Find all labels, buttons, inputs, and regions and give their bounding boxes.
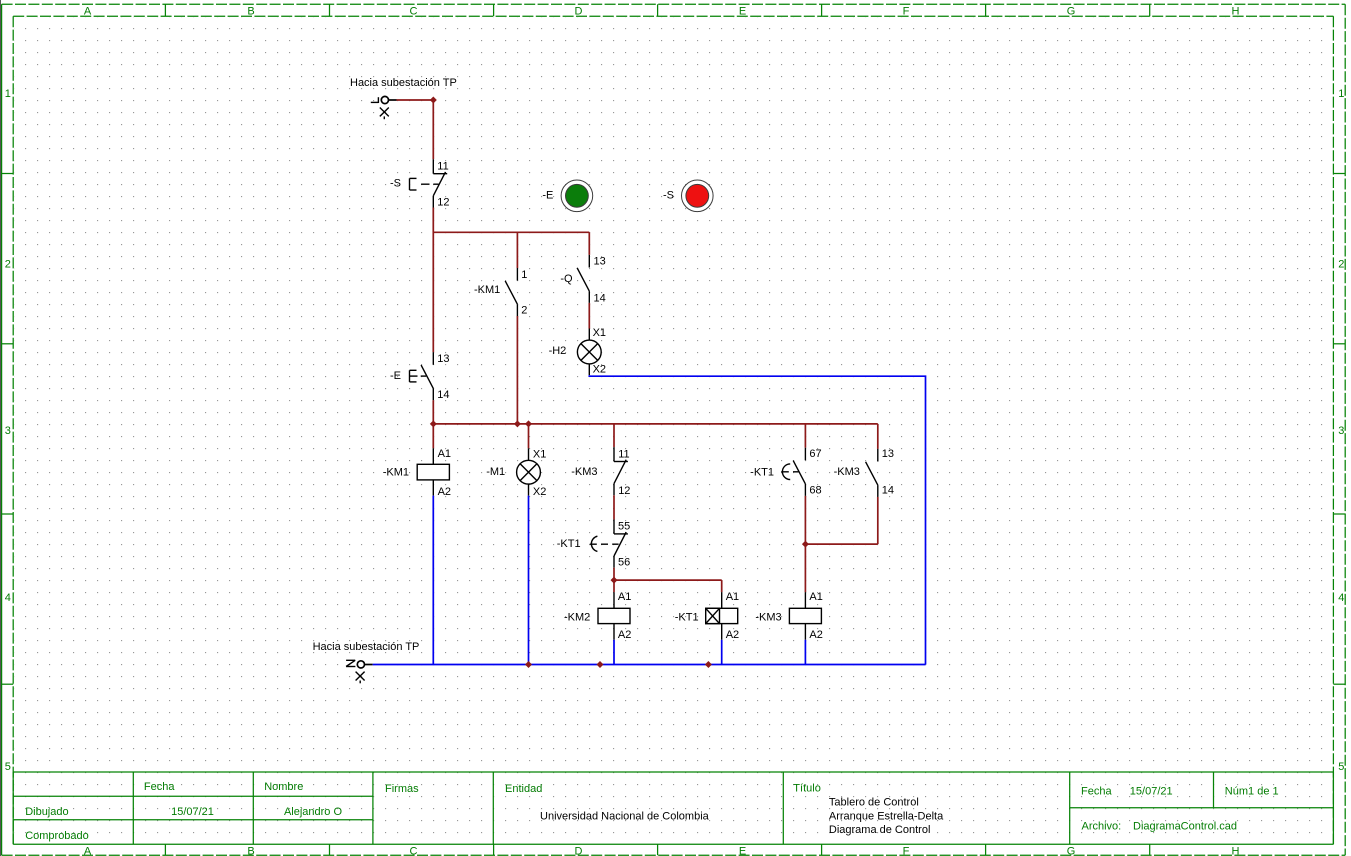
svg-text:-KM1: -KM1	[474, 284, 500, 296]
wire red KM3 NC to KT1 contact	[613, 495, 615, 519]
svg-text:68: 68	[809, 484, 821, 496]
svg-text:4: 4	[1338, 592, 1344, 604]
coil -KM3	[789, 592, 821, 640]
wire red bus corner to KM3 NO	[877, 424, 879, 449]
column letters bottom	[84, 845, 1240, 856]
left table row line 1	[13, 795, 373, 797]
svg-text:D: D	[575, 5, 583, 17]
svg-text:13: 13	[594, 255, 606, 267]
wire red Q branch upper	[588, 232, 590, 255]
svg-text:X2: X2	[533, 486, 546, 498]
wire red KM1-contact branch lower	[516, 316, 518, 424]
svg-text:A: A	[84, 845, 92, 856]
contact -KM1 (NO)	[505, 268, 517, 316]
inner dashed border top	[13, 15, 1333, 17]
svg-text:11: 11	[437, 160, 448, 172]
svg-text:-KM3: -KM3	[571, 466, 597, 478]
svg-text:H: H	[1232, 5, 1240, 17]
svg-text:Fecha: Fecha	[1081, 785, 1112, 797]
wire red below -E to bus	[432, 400, 434, 424]
wire red bus to KT1 contact 67	[804, 424, 806, 448]
inner dashed border left	[12, 16, 14, 844]
top band column ticks	[164, 4, 166, 16]
svg-text:Archivo:: Archivo:	[1082, 821, 1122, 833]
svg-text:1: 1	[521, 269, 527, 281]
right block middle horizontal	[1070, 807, 1334, 809]
svg-text:-KM3: -KM3	[834, 466, 860, 478]
svg-text:-KT1: -KT1	[675, 611, 699, 623]
svg-text:E: E	[739, 845, 746, 856]
row numbers left	[5, 88, 11, 773]
wire black terminal stub (bottom)	[365, 664, 373, 666]
svg-text:Título: Título	[793, 783, 821, 795]
svg-text:-KM1: -KM1	[383, 467, 409, 479]
junction bottom mid1	[597, 661, 604, 668]
svg-text:11: 11	[618, 448, 629, 460]
wire blue KM1 coil to bottom bus	[432, 496, 434, 665]
svg-text:15/07/21: 15/07/21	[1130, 785, 1173, 797]
svg-text:Firmas: Firmas	[385, 783, 419, 795]
contact -KM3 (NO, 13/14)	[866, 449, 878, 497]
contact -KT1 timed (67/68 NO)	[781, 448, 805, 496]
junction bus KM1-branch	[514, 420, 521, 427]
svg-text:Tablero de Control: Tablero de Control	[829, 796, 919, 808]
wire red top horizontal	[397, 99, 434, 101]
svg-text:Núm1 de 1: Núm1 de 1	[1225, 786, 1279, 798]
svg-text:A2: A2	[726, 629, 739, 641]
svg-text:Universidad Nacional de Colomb: Universidad Nacional de Colombia	[540, 810, 710, 822]
svg-text:Arranque Estrella-Delta: Arranque Estrella-Delta	[829, 810, 944, 822]
svg-text:Comprobado: Comprobado	[25, 830, 89, 842]
wire red horizontal KM3 loop	[805, 543, 877, 545]
svg-text:Hacia subestación TP: Hacia subestación TP	[350, 77, 457, 89]
wire red bus to KM1 coil	[432, 424, 434, 448]
wire blue KM2 to bottom bus	[613, 640, 615, 665]
svg-text:A1: A1	[726, 591, 739, 603]
svg-text:55: 55	[618, 520, 630, 532]
wire blue bottom bus	[373, 664, 926, 666]
svg-text:67: 67	[809, 448, 821, 460]
svg-text:-Q: -Q	[560, 273, 573, 285]
svg-text:3: 3	[1338, 425, 1344, 437]
left table row line 2	[13, 819, 373, 821]
svg-text:12: 12	[618, 485, 630, 497]
wire red KT1 67 to KM3 coil	[804, 496, 806, 592]
outer border left (solid)	[1, 4, 3, 855]
row numbers right	[1338, 88, 1344, 773]
wire red horizontal to KT1 coil	[614, 579, 722, 581]
svg-text:2: 2	[5, 259, 11, 271]
coil -KM1	[417, 448, 449, 495]
pushbutton -S (NC stop)	[410, 159, 448, 207]
outer border bottom (dashed)	[2, 854, 1346, 856]
wire red branch horizontal at 232	[433, 231, 589, 233]
wire red KM3 NO lower	[877, 497, 879, 544]
entidad column line	[492, 772, 494, 844]
firmas column line	[372, 772, 374, 844]
wire red between -Q and -H2	[588, 303, 590, 329]
svg-text:-E: -E	[390, 370, 401, 382]
svg-text:B: B	[247, 5, 254, 17]
coil -KT1 (timer)	[706, 592, 738, 640]
svg-text:C: C	[410, 845, 418, 856]
svg-text:56: 56	[618, 556, 630, 568]
svg-text:F: F	[903, 845, 910, 856]
wire black terminal stub (top)	[389, 99, 397, 101]
left band row ticks	[2, 173, 14, 175]
svg-text:-KT1: -KT1	[750, 467, 774, 479]
svg-text:C: C	[410, 5, 418, 17]
titulo column line	[782, 772, 784, 844]
svg-text:A1: A1	[618, 591, 631, 603]
svg-text:G: G	[1067, 845, 1076, 856]
svg-text:5: 5	[5, 761, 11, 773]
junction bottom M1	[525, 661, 532, 668]
svg-text:DiagramaControl.cad: DiagramaControl.cad	[1133, 821, 1237, 833]
wire red KT1 contact to KM2 coil	[613, 568, 615, 593]
svg-text:A: A	[84, 5, 92, 17]
pushbutton -E (NO start)	[410, 352, 434, 400]
svg-text:X2: X2	[593, 363, 606, 375]
svg-text:-KT1: -KT1	[557, 538, 581, 550]
column letters top	[84, 5, 1240, 17]
wire red KM1-contact branch upper	[516, 232, 518, 268]
svg-text:-E: -E	[542, 189, 553, 201]
junction bottom mid2	[705, 661, 712, 668]
svg-text:G: G	[1067, 5, 1076, 17]
wire red below -S down to -E contact	[432, 208, 434, 353]
svg-text:14: 14	[594, 293, 606, 305]
right block left edge	[1069, 772, 1071, 844]
svg-text:A1: A1	[809, 591, 822, 603]
wire blue KM3 coil to bottom bus	[804, 640, 806, 665]
svg-text:A2: A2	[809, 629, 822, 641]
node: terminal to substation (top)	[371, 96, 389, 119]
svg-text:A2: A2	[618, 629, 631, 641]
svg-text:-S: -S	[390, 177, 401, 189]
junction bus M1-branch	[525, 420, 532, 427]
right band row ticks	[1333, 173, 1345, 175]
svg-text:3: 3	[5, 425, 11, 437]
wire blue from H2 to right riser	[589, 375, 925, 664]
svg-text:H: H	[1232, 845, 1240, 856]
junction KM3 coil branch	[802, 541, 809, 548]
indicator light -S (red)	[682, 180, 714, 212]
svg-text:1: 1	[1338, 88, 1344, 100]
wire blue M1 to bottom bus	[528, 496, 530, 665]
TITLE BLOCK	[13, 772, 1333, 844]
svg-text:1: 1	[5, 88, 11, 100]
svg-text:12: 12	[437, 196, 449, 208]
svg-text:-KM2: -KM2	[564, 611, 590, 623]
svg-text:5: 5	[1338, 761, 1344, 773]
lamp -H2	[577, 329, 601, 376]
title block right edge	[1332, 772, 1334, 844]
indicator light -E (green)	[561, 180, 593, 212]
svg-text:X1: X1	[533, 449, 546, 461]
contact -Q (NO)	[577, 255, 589, 303]
title block top line	[13, 771, 1333, 773]
wire red down to -S	[432, 100, 434, 159]
wire blue KT1 coil to bottom bus	[721, 640, 723, 665]
svg-text:B: B	[247, 845, 254, 856]
outer border right (dashed)	[1344, 4, 1346, 855]
lamp -M1	[517, 448, 541, 495]
left table column line 1	[132, 772, 134, 844]
svg-text:Dibujado: Dibujado	[25, 806, 68, 818]
bottom band column ticks	[164, 844, 166, 855]
svg-text:D: D	[575, 845, 583, 856]
svg-text:F: F	[903, 5, 910, 17]
wire red bus to KM3 NC	[613, 424, 615, 447]
title block left edge	[12, 772, 14, 844]
svg-text:15/07/21: 15/07/21	[171, 806, 214, 818]
svg-text:14: 14	[882, 484, 894, 496]
outer border top (dashed)	[2, 3, 1346, 5]
svg-text:Entidad: Entidad	[505, 783, 542, 795]
svg-text:Diagrama de Control: Diagrama de Control	[829, 824, 931, 836]
wire red down to KT1 coil	[721, 580, 723, 592]
title block bottom line	[13, 843, 1333, 845]
coil -KM2	[598, 592, 630, 640]
window edge line	[0, 0, 2, 856]
wire red bus to M1 lamp	[528, 424, 530, 448]
left table column line 2	[252, 772, 254, 844]
svg-text:Nombre: Nombre	[264, 781, 303, 793]
svg-text:X1: X1	[593, 327, 606, 339]
node: terminal to substation (bottom)	[346, 660, 365, 683]
svg-text:Hacia subestación TP: Hacia subestación TP	[313, 641, 420, 653]
svg-text:-KM3: -KM3	[755, 611, 781, 623]
svg-text:A1: A1	[438, 448, 451, 460]
svg-text:E: E	[739, 5, 746, 17]
svg-text:-M1: -M1	[486, 466, 505, 478]
contact -KT1 timed (55/56)	[590, 520, 628, 568]
svg-text:Fecha: Fecha	[144, 781, 175, 793]
junction top corner	[430, 97, 437, 104]
inner dashed border right	[1332, 16, 1334, 844]
wire red main bus	[433, 423, 878, 425]
svg-text:A2: A2	[438, 486, 451, 498]
junction KM2 branch	[611, 577, 618, 584]
svg-text:2: 2	[1338, 259, 1344, 271]
svg-text:14: 14	[437, 389, 449, 401]
contact -KM3 (NC)	[614, 447, 628, 495]
right block fecha/num divider	[1213, 772, 1215, 808]
svg-text:13: 13	[437, 353, 449, 365]
svg-text:13: 13	[882, 448, 894, 460]
junction bus left	[430, 420, 437, 427]
svg-text:Alejandro O: Alejandro O	[284, 806, 343, 818]
svg-text:-H2: -H2	[549, 345, 567, 357]
svg-text:-S: -S	[663, 189, 674, 201]
svg-text:2: 2	[521, 305, 527, 317]
svg-text:4: 4	[5, 592, 11, 604]
